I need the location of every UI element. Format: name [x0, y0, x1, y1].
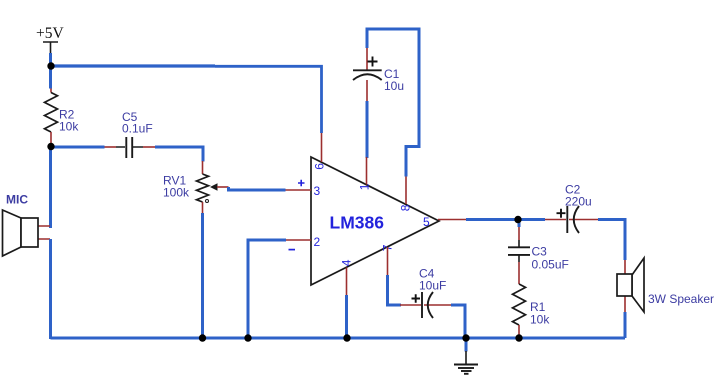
wire +5V stem	[49, 53, 52, 66]
wire MIC to ground bus	[49, 239, 52, 338]
power terminal +5V	[36, 25, 64, 54]
svg-text:6: 6	[313, 163, 327, 170]
pin 3 lead	[286, 189, 312, 191]
capacitor C1	[353, 48, 404, 101]
svg-text:10k: 10k	[530, 313, 550, 327]
svg-text:2: 2	[314, 235, 321, 249]
wire pin 4 to bus	[345, 295, 348, 338]
wire C5 to RV1	[155, 147, 203, 162]
svg-text:LM386: LM386	[330, 213, 385, 233]
svg-text:0.1uF: 0.1uF	[122, 122, 153, 136]
node junction ground bus	[462, 334, 469, 341]
svg-text:1: 1	[358, 183, 372, 190]
wire R2 top	[49, 66, 52, 89]
node junction +5V rail	[47, 62, 54, 69]
wire top rail to pin 6	[51, 64, 216, 67]
microphone MIC	[3, 193, 51, 257]
svg-text:10u: 10u	[384, 79, 404, 93]
wire pin 7 to C4	[388, 275, 402, 305]
potentiometer RV1	[163, 161, 229, 213]
svg-text:5: 5	[423, 215, 430, 229]
svg-text:C3: C3	[532, 245, 548, 259]
svg-text:0.05uF: 0.05uF	[532, 258, 569, 272]
node junction output	[514, 216, 521, 223]
pin 8 lead	[405, 177, 407, 205]
node junction R2 bottom	[47, 143, 54, 150]
wire RV1 wiper to pin 3	[229, 187, 286, 190]
pin 6 lead	[321, 133, 323, 162]
ground symbol	[454, 338, 478, 374]
svg-text:+5V: +5V	[36, 25, 64, 42]
resistor R1	[513, 284, 551, 336]
op-amp U1 LM386	[289, 157, 440, 285]
svg-text:8: 8	[399, 204, 413, 211]
node junction RV1 bus	[199, 334, 206, 341]
speaker LS1	[617, 258, 714, 312]
wire junction to C5	[51, 146, 105, 149]
capacitor C3	[508, 220, 569, 285]
svg-text:100k: 100k	[163, 186, 190, 200]
wire C1 top loop	[367, 29, 419, 177]
capacitor C4	[400, 267, 451, 319]
wire pin 2 net	[248, 240, 286, 338]
wire C4 to bus	[451, 305, 465, 338]
pin 4 lead	[346, 268, 348, 296]
wire junction to MIC	[49, 147, 52, 229]
speaker LS1 leads	[624, 260, 626, 312]
node junction pin4 bus	[343, 334, 350, 341]
svg-text:4: 4	[340, 259, 354, 266]
wire C1 to pin 1	[366, 101, 369, 158]
svg-text:MIC: MIC	[6, 193, 28, 207]
pin 7 lead	[387, 247, 389, 275]
pin 1 lead	[366, 157, 368, 185]
wire output junction to C2	[518, 218, 545, 221]
svg-text:220u: 220u	[565, 195, 592, 209]
svg-text:10uF: 10uF	[419, 279, 446, 293]
svg-text:3: 3	[314, 184, 321, 198]
wire top rail right segment	[215, 66, 322, 133]
wire C2 to speaker	[598, 220, 625, 261]
node junction R1 bus	[515, 334, 522, 341]
pin 5 lead	[438, 219, 466, 221]
capacitor C2	[545, 183, 598, 234]
svg-text:10k: 10k	[59, 120, 79, 134]
capacitor C5	[105, 110, 156, 158]
wire ground bus	[51, 337, 626, 340]
wire output pin5 to junction	[466, 218, 518, 221]
resistor R2	[45, 89, 80, 144]
node junction pin2 bus	[244, 334, 251, 341]
wire speaker to bus	[624, 312, 627, 338]
pin 2 lead	[286, 239, 311, 241]
svg-text:3W Speaker: 3W Speaker	[648, 292, 714, 306]
wire RV1 bottom to bus	[201, 213, 204, 338]
wire bus left corner	[49, 336, 52, 339]
